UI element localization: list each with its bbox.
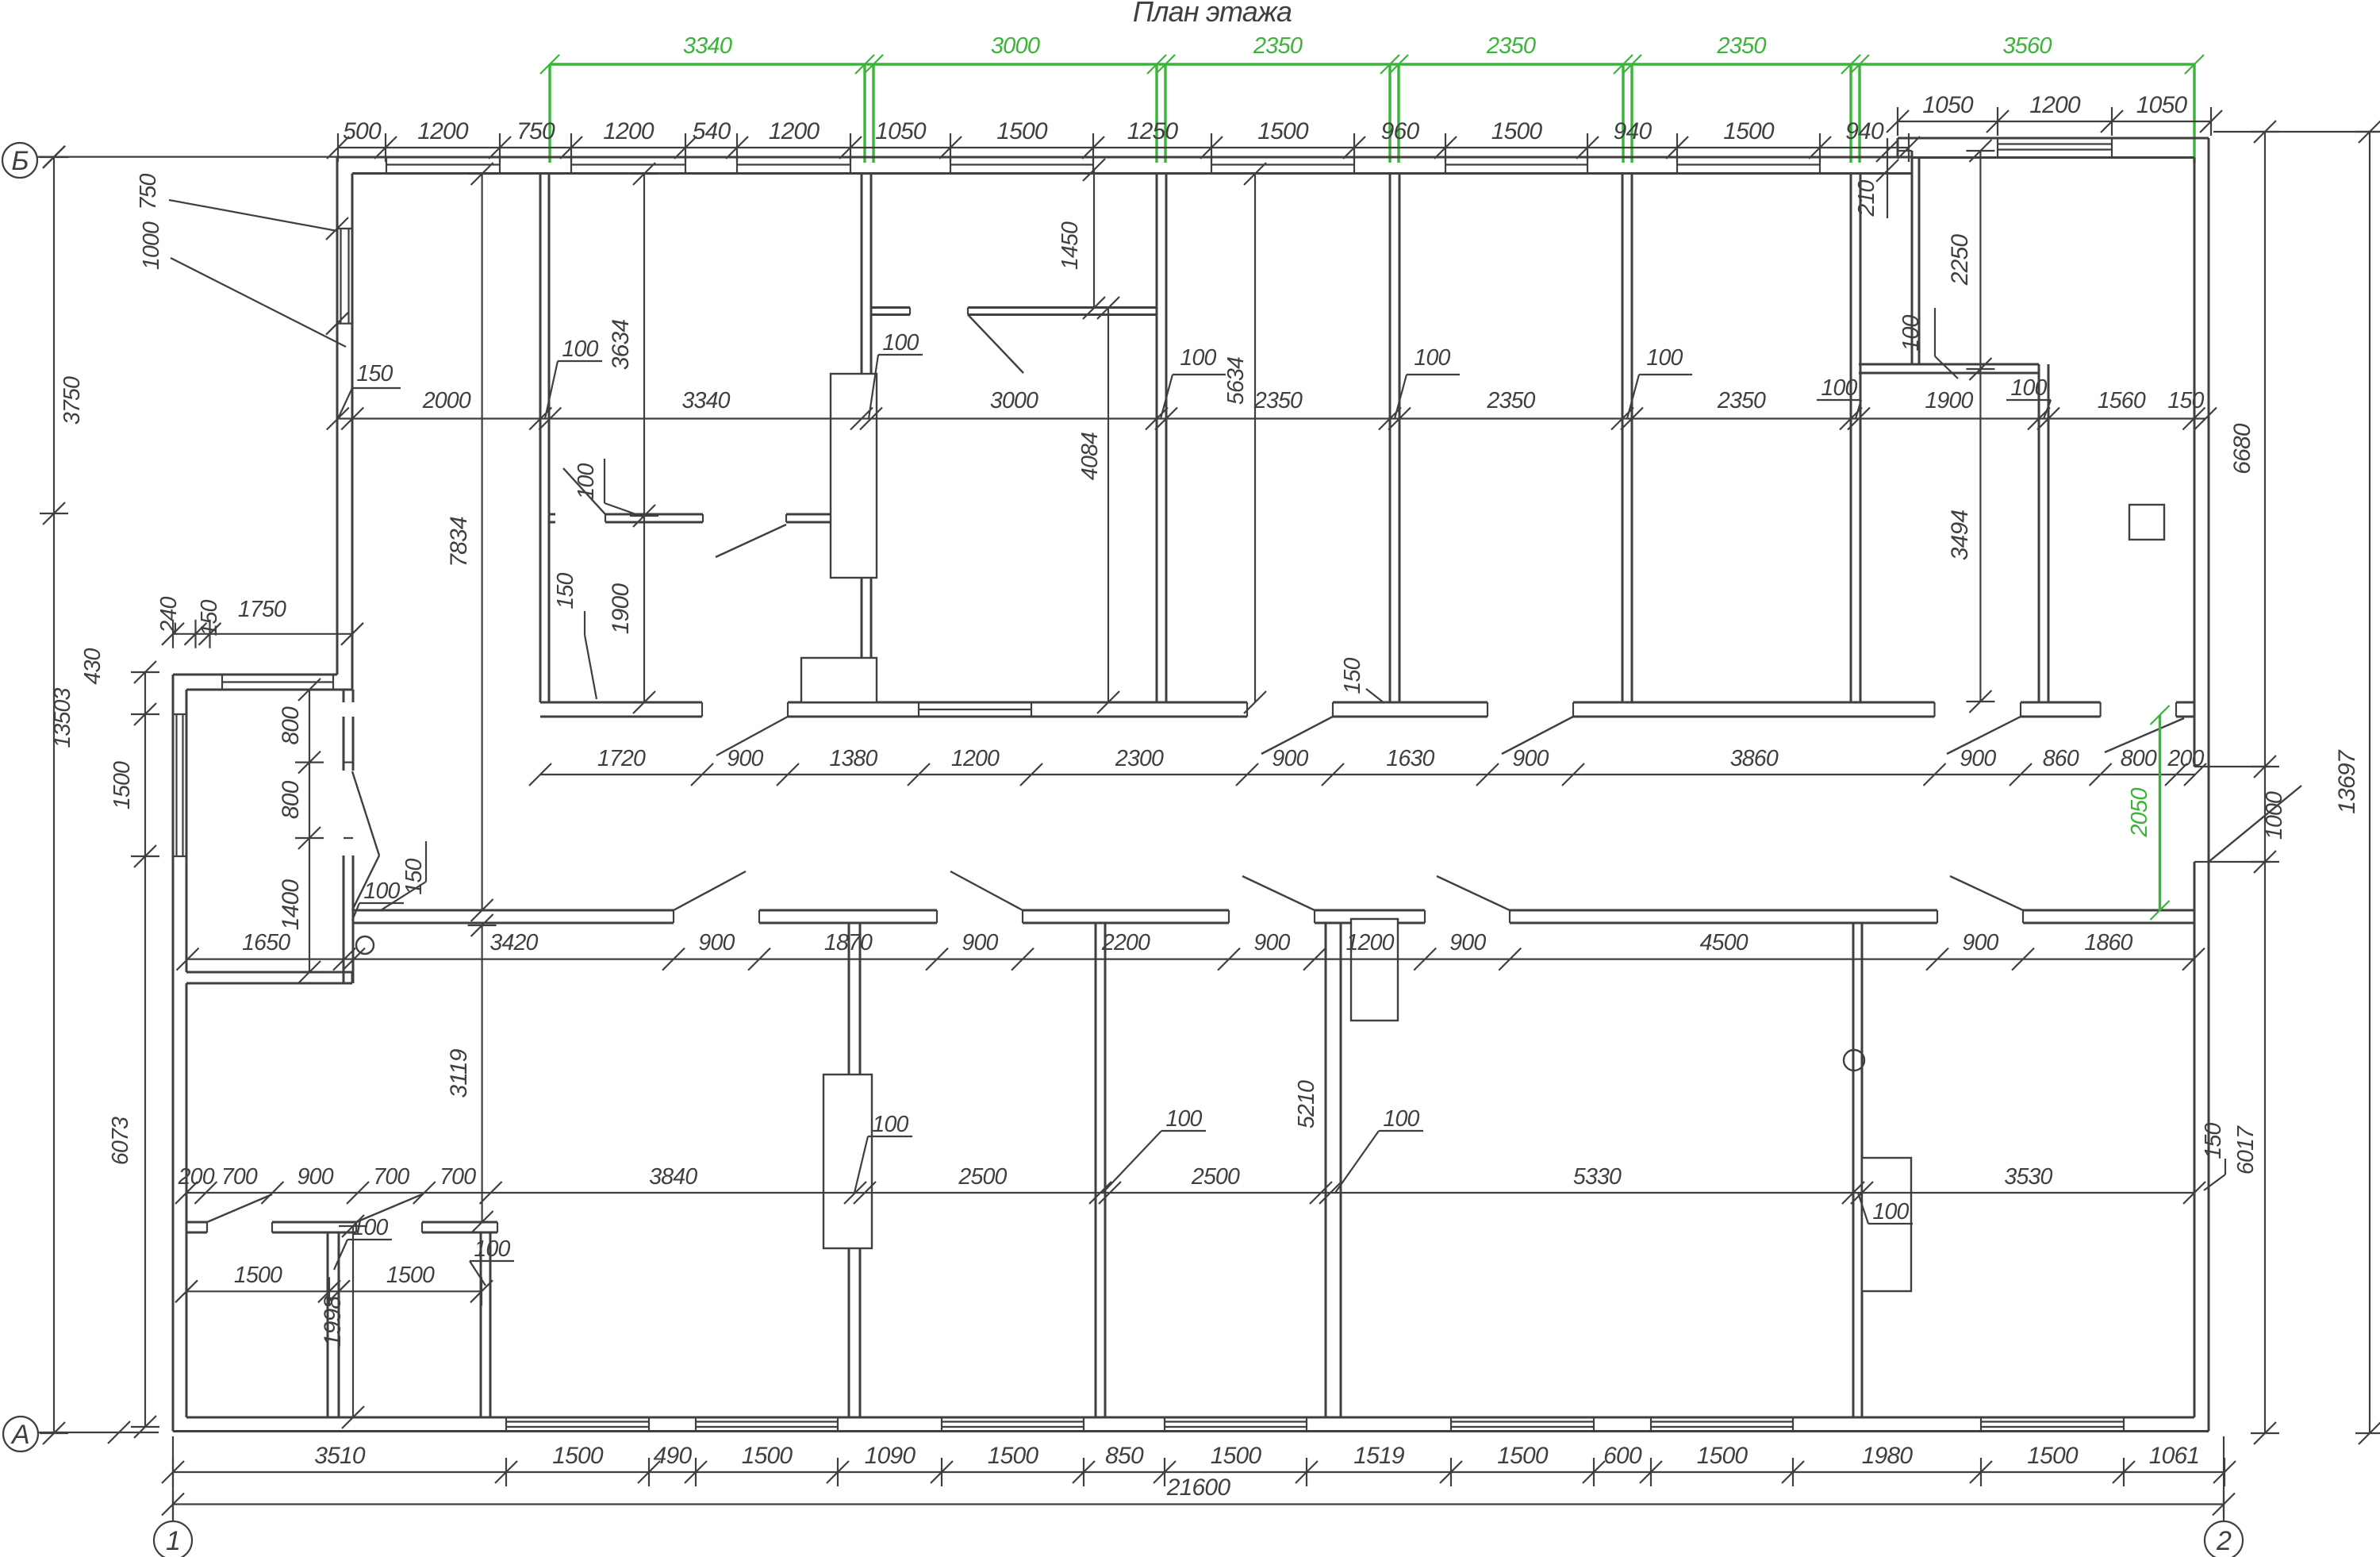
svg-text:1500: 1500	[1257, 118, 1309, 144]
svg-text:900: 900	[1962, 930, 1998, 955]
chain 1500/1500 (bottom-left rooms)	[186, 1290, 482, 1292]
svg-text:1200: 1200	[1345, 930, 1394, 955]
svg-text:1998: 1998	[320, 1296, 346, 1347]
svg-text:100: 100	[2010, 375, 2047, 401]
svg-text:860: 860	[2043, 746, 2079, 771]
svg-text:900: 900	[1449, 930, 1486, 955]
window in stepped wall	[1997, 138, 1998, 158]
top exterior wall	[337, 156, 1912, 159]
svg-text:2200: 2200	[1101, 930, 1150, 955]
svg-text:1900: 1900	[1925, 388, 1973, 413]
svg-text:7834: 7834	[446, 517, 472, 567]
partition wall P14	[480, 1232, 482, 1417]
svg-text:540: 540	[693, 118, 731, 144]
svg-text:3000: 3000	[990, 388, 1038, 413]
dimension chain bottom: 3510/1500/490/...	[173, 1471, 2225, 1473]
svg-text:1750: 1750	[238, 597, 286, 622]
svg-text:1000: 1000	[139, 221, 164, 270]
svg-text:100: 100	[562, 336, 598, 362]
svg-text:490: 490	[654, 1443, 693, 1469]
right exterior wall	[2208, 138, 2210, 1432]
svg-text:1500: 1500	[1491, 118, 1543, 144]
built-in wardrobe	[823, 1075, 872, 1248]
vertical dimension chain 2250/3494	[1979, 151, 1981, 702]
svg-text:5634: 5634	[1223, 357, 1249, 405]
svg-text:100: 100	[574, 463, 599, 499]
axis line B	[37, 156, 337, 158]
axis 1 circle	[172, 1436, 174, 1521]
vertical dimension chain 3119	[481, 925, 482, 1222]
svg-text:100: 100	[1180, 345, 1216, 371]
room subdivision wall	[871, 306, 910, 309]
svg-text:150: 150	[356, 361, 393, 386]
svg-text:900: 900	[1512, 746, 1549, 771]
vestibule right wall	[343, 717, 345, 771]
window in left wall of top-left block (750/1000)	[337, 228, 352, 229]
svg-text:940: 940	[1845, 118, 1884, 144]
svg-text:Б: Б	[11, 146, 28, 176]
riser circle (bottom right room)	[1844, 1050, 1864, 1071]
vestibule top wall	[173, 674, 337, 676]
svg-text:4500: 4500	[1700, 930, 1749, 955]
dimension chain bottom total 21600	[173, 1503, 2224, 1505]
green dimension 2050 (corridor width)	[2159, 715, 2161, 910]
svg-text:1900: 1900	[608, 583, 634, 635]
svg-text:1200: 1200	[417, 118, 469, 144]
svg-text:1870: 1870	[824, 930, 873, 955]
svg-text:1500: 1500	[552, 1443, 604, 1469]
svg-text:3530: 3530	[2004, 1164, 2052, 1190]
svg-text:150: 150	[1340, 657, 1365, 694]
left exterior wall	[172, 675, 175, 1432]
corridor upper wall	[540, 702, 702, 704]
built-in wardrobe right	[1862, 1158, 1911, 1291]
svg-text:21600: 21600	[1166, 1474, 1231, 1501]
partition wall P10	[1095, 923, 1097, 1417]
dimension chain vestibule top 240/150/1750	[173, 633, 352, 635]
closet door leaves	[207, 1194, 272, 1222]
svg-text:700: 700	[440, 1164, 476, 1190]
bottom exterior wall	[173, 1430, 2209, 1432]
dim 4084	[1107, 308, 1109, 702]
green dimension chain 3340/3000/2350/2350/2350/3560	[550, 63, 2194, 65]
svg-text:100: 100	[1898, 314, 1924, 351]
svg-text:2350: 2350	[1486, 388, 1535, 413]
vertical dimension chain right 13697	[2369, 132, 2370, 1433]
svg-text:940: 940	[1614, 118, 1653, 144]
axis circle 2	[2205, 1521, 2243, 1557]
vertical dimension chain vestibule 800/800/1400	[309, 690, 310, 972]
svg-text:2500: 2500	[958, 1164, 1007, 1190]
svg-text:900: 900	[1253, 930, 1290, 955]
svg-text:900: 900	[1960, 746, 1996, 771]
svg-text:100: 100	[1872, 1199, 1909, 1224]
window in left wall (1500)	[173, 713, 186, 715]
dimension chain top right: 1050/1200/1050	[1898, 121, 2211, 122]
svg-text:6017: 6017	[2233, 1125, 2259, 1174]
bottom band dimension chain 200/700/900/700/700/3840/100/2500/100/2500/100/5330/3530	[186, 1192, 2194, 1194]
svg-text:1500: 1500	[1211, 1443, 1262, 1469]
svg-text:200: 200	[2167, 746, 2204, 771]
svg-text:1050: 1050	[875, 118, 927, 144]
left chain 3750/13503	[53, 157, 55, 1433]
svg-text:1050: 1050	[1922, 92, 1974, 118]
svg-text:2350: 2350	[1486, 33, 1536, 59]
windows in top wall	[386, 157, 387, 174]
stepped top-right exterior wall	[1898, 137, 2209, 140]
svg-text:850: 850	[1105, 1443, 1144, 1469]
axis circle Б	[2, 143, 37, 178]
svg-text:100: 100	[1821, 375, 1857, 401]
svg-text:3000: 3000	[991, 33, 1040, 59]
closet rectangle at corridor wall	[801, 658, 877, 702]
svg-text:2350: 2350	[1717, 388, 1766, 413]
svg-text:6680: 6680	[2229, 423, 2255, 475]
svg-text:6073: 6073	[108, 1117, 133, 1165]
svg-text:1061: 1061	[2149, 1443, 2200, 1469]
axis 2 circle	[2223, 1436, 2225, 1521]
svg-text:1380: 1380	[829, 746, 877, 771]
svg-text:1860: 1860	[2084, 930, 2132, 955]
svg-text:3420: 3420	[489, 930, 538, 955]
window in vestibule top wall	[221, 675, 223, 690]
riser circle (vestibule)	[356, 936, 374, 954]
svg-text:2500: 2500	[1191, 1164, 1240, 1190]
svg-text:5210: 5210	[1294, 1080, 1319, 1128]
partition wall P7	[2038, 364, 2040, 702]
small duct square (room 1560)	[2129, 505, 2164, 540]
svg-text:1500: 1500	[1723, 118, 1775, 144]
svg-text:150: 150	[2167, 388, 2204, 413]
svg-text:1200: 1200	[951, 746, 1000, 771]
windows in bottom wall	[505, 1417, 507, 1432]
vertical dimension chain 3634/1900	[643, 174, 645, 702]
partition wall P1	[539, 174, 542, 703]
right door extension lines	[2209, 766, 2270, 767]
svg-text:210: 210	[1854, 179, 1879, 217]
svg-text:600: 600	[1603, 1443, 1642, 1469]
subdivision door leaf	[968, 315, 1023, 374]
left wall of top-left block	[336, 157, 339, 675]
sub-room door leaves	[563, 468, 605, 514]
svg-text:1500: 1500	[988, 1443, 1039, 1469]
svg-text:960: 960	[1381, 118, 1420, 144]
svg-text:2: 2	[2216, 1526, 2232, 1556]
svg-text:100: 100	[872, 1112, 908, 1137]
svg-text:1050: 1050	[2136, 92, 2188, 118]
svg-text:2250: 2250	[1947, 234, 1973, 286]
closet row wall (right section)	[1859, 363, 2039, 366]
svg-text:900: 900	[962, 930, 998, 955]
svg-text:3119: 3119	[446, 1048, 472, 1098]
svg-text:900: 900	[727, 746, 763, 771]
svg-text:200: 200	[178, 1164, 215, 1190]
svg-text:4084: 4084	[1077, 432, 1103, 480]
axis circle 1	[154, 1521, 192, 1557]
window in corridor upper wall (1200)	[918, 702, 919, 717]
svg-text:1500: 1500	[109, 761, 135, 809]
svg-text:900: 900	[297, 1164, 334, 1190]
svg-text:1519: 1519	[1353, 1443, 1405, 1469]
svg-text:1720: 1720	[597, 746, 646, 771]
step jog	[1897, 138, 1899, 158]
vent shaft	[1351, 919, 1398, 1021]
svg-text:800: 800	[278, 780, 304, 819]
svg-text:800: 800	[2121, 746, 2157, 771]
svg-text:1650: 1650	[242, 930, 290, 955]
partition wall P4	[1389, 174, 1392, 703]
svg-text:3750: 3750	[59, 376, 85, 425]
svg-text:100: 100	[1383, 1106, 1419, 1132]
svg-text:3560: 3560	[2002, 33, 2052, 59]
svg-text:1500: 1500	[742, 1443, 793, 1469]
svg-text:1200: 1200	[2029, 92, 2081, 118]
vertical dimension chain right 6680/1000/6017	[2264, 132, 2266, 1433]
svg-text:1000: 1000	[2262, 791, 2287, 840]
vertical dimension chain 7834	[481, 174, 482, 910]
svg-text:750: 750	[136, 173, 161, 210]
svg-text:100: 100	[1165, 1106, 1202, 1132]
dimension chain top: 500..940	[338, 147, 1909, 148]
svg-text:1: 1	[166, 1526, 180, 1556]
partition wall P9	[848, 923, 850, 1417]
svg-text:5330: 5330	[1573, 1164, 1622, 1190]
bottom-left closet front wall	[186, 1221, 207, 1224]
sub-room wall (left block)	[550, 513, 555, 516]
dim 5634	[1254, 174, 1256, 702]
svg-text:100: 100	[351, 1215, 388, 1240]
svg-text:240: 240	[156, 596, 182, 633]
corridor upper dimension chain 1720/900/1380/1200/2300/900/1630/900/3860/900/860/800/200	[540, 774, 2195, 775]
vestibule door leaf	[352, 771, 379, 855]
svg-text:750: 750	[516, 118, 555, 144]
svg-text:1500: 1500	[386, 1263, 435, 1288]
partition wall P12	[1852, 923, 1855, 1417]
vestibule bottom wall	[186, 971, 352, 974]
svg-text:100: 100	[882, 330, 919, 356]
right top extension line	[2213, 131, 2380, 133]
corridor lower wall	[352, 909, 674, 912]
axis line A	[37, 1432, 159, 1433]
dim 210 (step)	[1887, 138, 1888, 218]
svg-text:1400: 1400	[278, 879, 304, 931]
svg-text:3634: 3634	[608, 320, 634, 371]
svg-text:1450: 1450	[1058, 221, 1083, 270]
svg-text:1500: 1500	[234, 1263, 282, 1288]
built-in wardrobe (room 3340)	[831, 374, 877, 578]
partition wall P5	[1622, 174, 1624, 703]
svg-text:13503: 13503	[50, 687, 75, 748]
axis circle А	[3, 1417, 38, 1451]
left chain 430/1500/6073	[144, 672, 146, 1427]
svg-text:100: 100	[1414, 345, 1450, 371]
svg-text:500: 500	[343, 118, 382, 144]
svg-text:1980: 1980	[1862, 1443, 1914, 1469]
svg-text:А: А	[10, 1420, 29, 1450]
svg-text:150: 150	[2201, 1122, 2226, 1159]
svg-text:2350: 2350	[1253, 388, 1303, 413]
svg-text:1500: 1500	[996, 118, 1048, 144]
green extension lines	[548, 64, 551, 163]
partition wall P6	[1850, 174, 1852, 703]
partition wall P11	[1325, 923, 1327, 1417]
svg-text:800: 800	[278, 706, 304, 745]
svg-text:100: 100	[363, 878, 400, 904]
svg-text:700: 700	[373, 1164, 409, 1190]
svg-text:2350: 2350	[1253, 33, 1303, 59]
svg-text:100: 100	[474, 1236, 510, 1262]
svg-text:План этажа: План этажа	[1133, 0, 1292, 28]
svg-text:1250: 1250	[1127, 118, 1179, 144]
svg-text:900: 900	[1272, 746, 1308, 771]
svg-text:3860: 3860	[1730, 746, 1779, 771]
dim 1450	[1093, 170, 1095, 308]
vertical dimension chain 1998	[352, 1226, 354, 1417]
svg-text:430: 430	[80, 648, 106, 684]
svg-text:3340: 3340	[683, 33, 732, 59]
svg-text:1630: 1630	[1386, 746, 1434, 771]
svg-text:900: 900	[698, 930, 735, 955]
closet divider	[1911, 151, 1914, 364]
svg-text:1090: 1090	[865, 1443, 916, 1469]
corridor lower dimension chain 1650/3420/900/1870/900/2200/900/1200/900/4500/900/1860	[188, 958, 2194, 959]
partition wall P3	[1156, 174, 1158, 703]
svg-text:1500: 1500	[2027, 1443, 2079, 1469]
svg-text:3340: 3340	[681, 388, 730, 413]
svg-text:3494: 3494	[1947, 510, 1973, 561]
right wall exterior door leaf	[2209, 786, 2301, 862]
svg-text:2300: 2300	[1115, 746, 1164, 771]
svg-text:150: 150	[197, 599, 222, 636]
svg-text:1500: 1500	[1497, 1443, 1549, 1469]
svg-text:700: 700	[221, 1164, 258, 1190]
svg-text:2350: 2350	[1716, 33, 1766, 59]
svg-text:1560: 1560	[2098, 388, 2146, 413]
partition wall P2	[861, 174, 863, 703]
leader 150 (left wall thickness)	[352, 387, 401, 389]
svg-text:2050: 2050	[2127, 788, 2152, 838]
svg-text:1200: 1200	[603, 118, 654, 144]
svg-text:3840: 3840	[649, 1164, 697, 1190]
partition wall P13	[327, 1232, 329, 1417]
door leaves along corridor	[716, 717, 788, 755]
svg-text:1200: 1200	[769, 118, 820, 144]
svg-text:13697: 13697	[2334, 749, 2360, 814]
svg-text:1500: 1500	[1697, 1443, 1749, 1469]
svg-text:100: 100	[1646, 345, 1683, 371]
svg-text:3510: 3510	[314, 1443, 366, 1469]
svg-text:2000: 2000	[422, 388, 471, 413]
mid dimension chain 150/2000/3340/...	[338, 417, 2205, 419]
svg-text:150: 150	[553, 572, 578, 609]
